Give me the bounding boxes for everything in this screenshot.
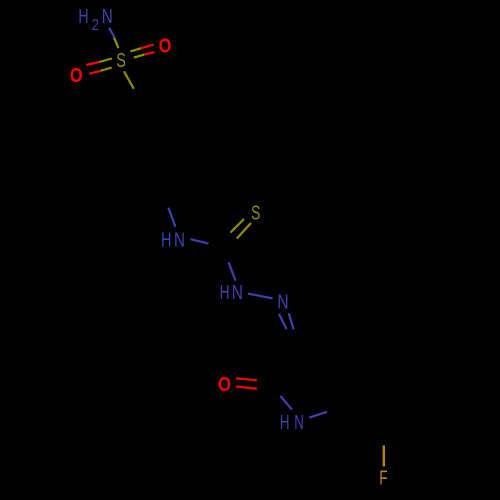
svg-text:N: N <box>232 282 243 304</box>
atom label HN (anilino nitrogen) <box>161 230 185 252</box>
svg-text:F: F <box>379 467 387 489</box>
svg-text:H: H <box>78 6 88 28</box>
svg-text:O: O <box>70 65 83 87</box>
bond N-S (half near N, blue) <box>109 28 115 38</box>
bond C2-N1 (blue half near N1) <box>280 396 292 410</box>
svg-text:O: O <box>218 374 231 396</box>
svg-text:N: N <box>277 291 288 313</box>
svg-text:2: 2 <box>92 17 99 34</box>
atom label H2N (sulfonamide nitrogen) <box>78 6 112 34</box>
bond C=S thione, line 2 olive half <box>237 223 251 239</box>
svg-text:O: O <box>159 36 172 58</box>
svg-text:N: N <box>102 6 113 28</box>
bond C7-F (gold half near F) <box>383 445 385 466</box>
bond S=O left, line 2 red half <box>89 71 100 74</box>
bond S-C1 of benzene ring (olive half near S) <box>124 71 134 89</box>
bond N-S (half near S, olive) <box>114 38 119 49</box>
bond N1-C7a (blue half near N1) <box>309 412 327 418</box>
bond N-C(thiocarbonyl) blue half near N <box>191 239 209 243</box>
bond C4(ring)-N anilino (blue half near N) <box>168 208 175 227</box>
atom label HN (hydrazide N2) <box>220 282 243 304</box>
bond C2=O double, line 1 red half <box>236 378 257 380</box>
bond N2-N3 (full blue) <box>248 294 273 299</box>
bond C2=O double, line 2 red half <box>236 387 257 389</box>
svg-text:N: N <box>294 412 304 434</box>
svg-text:N: N <box>174 230 185 252</box>
svg-text:S: S <box>116 50 126 72</box>
bond S=O right, line 1 red half <box>141 45 154 49</box>
bond N3=C3 double, line 2 blue half <box>289 313 294 329</box>
bond C-N2 hydrazide (blue half near N2) <box>229 262 236 281</box>
bond C=S thione, line 1 olive half <box>231 219 245 233</box>
bond S=O right, line 2 olive half <box>134 55 144 58</box>
svg-text:H: H <box>280 412 290 434</box>
svg-text:S: S <box>251 202 260 224</box>
atom label HN (isatin N1) <box>280 412 304 434</box>
svg-text:H: H <box>161 230 171 252</box>
bond S=O right, line 1 olive half <box>130 48 141 51</box>
bond S=O left, line 2 olive half <box>101 68 112 71</box>
bond S=O left, line 1 olive half <box>99 59 112 63</box>
bond S=O right, line 2 red half <box>144 52 154 54</box>
bond N3=C3 double, line 1 blue half <box>279 314 287 329</box>
svg-text:H: H <box>220 282 230 304</box>
bond S=O left, line 1 red half <box>86 62 99 65</box>
